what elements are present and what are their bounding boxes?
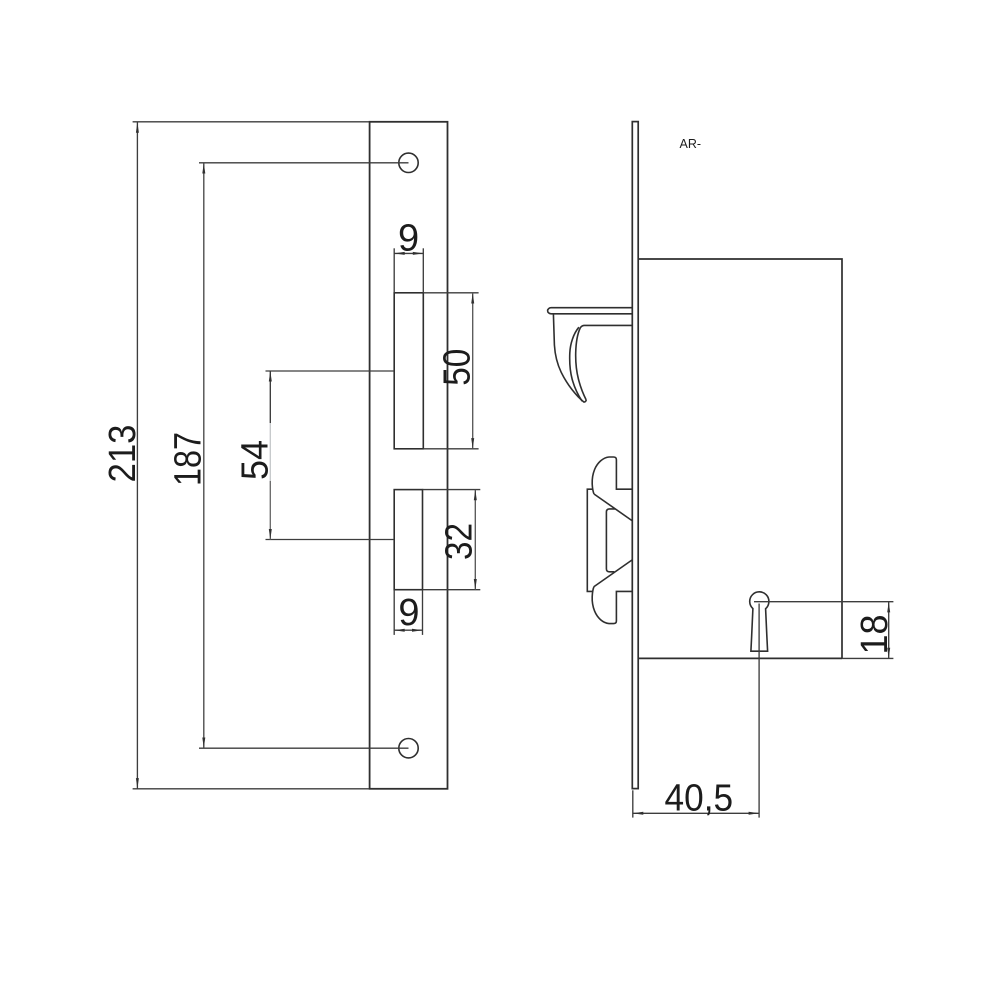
dim 213 extension top bbox=[133, 121, 369, 123]
bolt bottom lobe bbox=[592, 587, 632, 624]
dim 9 bottom line bbox=[394, 629, 422, 631]
dim 9 top line bbox=[394, 252, 423, 254]
dim 50 line bbox=[472, 293, 474, 449]
dim 40,5 line bbox=[633, 812, 759, 814]
arrows 18 bbox=[887, 602, 890, 613]
dim 213 line bbox=[136, 122, 138, 788]
latch hook outer bbox=[553, 314, 586, 402]
dim 187 extension bottom bbox=[199, 747, 409, 749]
dim 50 extensions bbox=[423, 292, 478, 294]
dim 54 line bbox=[269, 371, 271, 423]
arrows 187 bbox=[202, 163, 205, 174]
dim 18 line bbox=[888, 602, 890, 658]
arrows 9 top bbox=[394, 252, 405, 255]
bolt upper diagonal bbox=[594, 494, 632, 521]
svg-text:18: 18 bbox=[854, 615, 896, 655]
svg-text:9: 9 bbox=[398, 592, 419, 634]
latch hook inner edge B bbox=[576, 325, 633, 400]
arrows 213 bbox=[136, 122, 139, 133]
screw hole bottom bbox=[399, 739, 418, 758]
svg-text:213: 213 bbox=[102, 425, 144, 483]
dim 54 extension top bbox=[266, 370, 395, 372]
keyhole bbox=[750, 592, 769, 651]
svg-text:9: 9 bbox=[398, 218, 419, 260]
bolt lower diagonal bbox=[594, 560, 632, 587]
dim 213 extension bottom bbox=[133, 788, 369, 790]
latch hook inner edge A bbox=[570, 327, 582, 401]
keyhole centre line horizontal bbox=[754, 601, 893, 603]
dimension texts bbox=[102, 218, 896, 820]
arrows 40,5 bbox=[633, 812, 644, 815]
dim 187 line bbox=[203, 163, 205, 748]
arrows 50 bbox=[471, 293, 474, 304]
lock body bbox=[638, 259, 842, 658]
keyhole centre line vertical / 40,5 right extension bbox=[758, 604, 760, 818]
svg-text:40,5: 40,5 bbox=[665, 777, 734, 819]
bolt slider plate bbox=[587, 489, 593, 591]
latch bar bbox=[548, 308, 633, 314]
arrowheads bbox=[136, 122, 890, 815]
svg-text:50: 50 bbox=[436, 349, 478, 386]
dim 9 bottom extensions bbox=[393, 590, 395, 635]
faceplate front outline bbox=[370, 122, 448, 789]
bolt cutout bbox=[394, 490, 422, 590]
dim 18 bottom extension bbox=[842, 657, 893, 659]
svg-text:AR-: AR- bbox=[680, 137, 702, 151]
svg-text:54: 54 bbox=[234, 440, 276, 480]
dim 32 extensions bbox=[423, 489, 481, 491]
svg-text:187: 187 bbox=[168, 432, 210, 486]
dim 9 top extensions bbox=[393, 248, 395, 292]
bolt middle rounded rect bbox=[606, 509, 615, 572]
latch cutout bbox=[394, 293, 423, 449]
dim 54 extension bottom bbox=[266, 539, 395, 541]
arrows 54 bbox=[269, 371, 272, 382]
bolt top lobe bbox=[592, 457, 632, 494]
dim 32 line bbox=[474, 490, 476, 590]
dim 40,5 left extension bbox=[632, 790, 634, 817]
screw hole top bbox=[399, 153, 418, 172]
svg-text:32: 32 bbox=[439, 523, 481, 560]
dim 187 extension top bbox=[199, 162, 409, 164]
arrows 9 bottom bbox=[394, 629, 405, 632]
faceplate edge bbox=[632, 122, 638, 789]
arrows 32 bbox=[474, 490, 477, 501]
